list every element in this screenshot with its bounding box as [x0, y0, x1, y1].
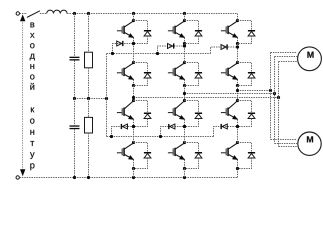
wire R2 branch lower: [88, 133, 90, 178]
freewheel diode VD3: [238, 21, 256, 44]
motor1 lead 2: [275, 56, 298, 58]
emitter node dot VT10: [132, 167, 135, 170]
junction dot clamp bottom col3: [236, 125, 239, 128]
wire switch to inductor: [40, 13, 47, 15]
emitter node dot VT11: [183, 167, 186, 170]
transistor VT5: [168, 64, 185, 80]
wire leg3 row1-row2: [237, 44, 239, 63]
junction dot top rail / phase leg 1: [132, 12, 135, 15]
phase 3 bus dot: [269, 89, 272, 92]
switch S1 blade: [27, 11, 40, 18]
clamp diode VD13: [117, 41, 124, 46]
wire clamp riser/line top col2: [158, 46, 185, 54]
junction dot clamp top col1: [132, 42, 135, 45]
collector node dot VT6: [236, 61, 239, 64]
junction dot mid rail / C: [73, 97, 76, 100]
emitter wire VT3: [237, 38, 239, 44]
motor2 lead 1: [279, 146, 298, 148]
collector node dot VT5: [183, 61, 186, 64]
bottom rail wire: [20, 177, 238, 179]
transistor VT9: [221, 102, 238, 120]
freewheel diode VD4: [134, 63, 152, 86]
label "входной" (vertical): [30, 23, 35, 90]
wire clamp riser/line bottom col2: [161, 127, 185, 137]
emitter wire VT10: [133, 160, 135, 169]
emitter wire VT8: [184, 119, 186, 126]
transistor VT10: [117, 144, 134, 160]
freewheel diode VD9: [238, 101, 256, 127]
phase 2 bus dot: [273, 92, 276, 95]
transistor VT12: [221, 144, 238, 160]
wire clamp riser/line bottom col3: [214, 127, 238, 137]
wire clamp riser/line top col3: [211, 47, 238, 54]
wire R1 branch lower: [88, 68, 90, 99]
wire leg3 row3-row4: [237, 127, 239, 143]
resistor R2: [85, 117, 93, 133]
inductor L1: [47, 10, 67, 13]
wire leg1 row4-bottom: [133, 169, 135, 178]
phase 2 tap dot: [183, 92, 186, 95]
emitter wire VT1: [133, 38, 135, 44]
emitter wire VT6: [237, 80, 239, 86]
junction dot top rail / R1: [87, 12, 90, 15]
phase 1 output wire: [134, 97, 279, 99]
motor1 lead 1: [279, 61, 298, 63]
motor bus vertical 1: [278, 62, 280, 147]
neutral mid rail: [75, 98, 107, 100]
capacitor C2: [70, 125, 80, 129]
motor2 lead 2: [275, 143, 298, 145]
freewheel diode VD2: [185, 21, 203, 44]
junction dot bus bottom col1: [110, 135, 113, 138]
wire R2 branch upper: [88, 99, 90, 118]
emitter node dot VT7: [132, 125, 135, 128]
neutral top bus: [107, 53, 211, 55]
resistor R1: [85, 52, 93, 68]
phase 1 bus dot: [277, 96, 280, 99]
collector node dot VT1: [132, 19, 135, 22]
wire top rail to VT2: [184, 14, 186, 21]
phase 3 output wire: [238, 90, 271, 92]
clamp diode VD17: [168, 124, 175, 129]
phase 2 output wire: [185, 93, 275, 95]
emitter wire VT7: [133, 119, 135, 126]
clamp diode VD16: [121, 124, 128, 129]
freewheel diode VD10: [134, 143, 152, 169]
motor2 lead 3: [271, 139, 298, 141]
emitter node dot VT3: [236, 42, 239, 45]
clamp diode VD15: [221, 44, 228, 49]
junction dot clamp bottom col1: [132, 125, 135, 128]
motor bus vertical 2: [274, 57, 276, 144]
junction dot bus top col2: [156, 52, 159, 55]
clamp diode VD18: [221, 124, 228, 129]
junction dot bottom rail / R2: [87, 176, 90, 179]
motor M1: [298, 47, 322, 71]
emitter node dot VT1: [132, 42, 135, 45]
emitter wire VT4: [133, 80, 135, 86]
emitter wire VT9: [237, 119, 239, 126]
motor M2: [298, 132, 321, 155]
collector node dot VT2: [183, 19, 186, 22]
label "контур" (vertical): [30, 107, 35, 170]
collector node dot VT8: [183, 99, 186, 102]
transistor VT11: [168, 144, 185, 160]
wire leg1 row1-row2: [133, 44, 135, 63]
arrowhead down: [20, 169, 25, 176]
wire from terminal to switch: [20, 13, 27, 15]
transistor VT1: [117, 22, 134, 38]
emitter node dot VT5: [183, 84, 186, 87]
bottom terminal: [16, 176, 19, 179]
motor bus vertical 3: [270, 53, 272, 140]
wire C1 branch lower: [74, 61, 76, 99]
emitter node dot VT4: [132, 84, 135, 87]
collector node dot VT9: [236, 99, 239, 102]
junction dot clamp top col3: [236, 45, 239, 48]
wire C2 branch upper: [74, 99, 76, 126]
junction dot bus top col1: [111, 52, 114, 55]
collector node dot VT7: [132, 99, 135, 102]
emitter wire VT12: [237, 160, 239, 169]
wire C2 branch lower: [74, 129, 76, 177]
wire clamp riser/line bottom col1: [112, 127, 134, 137]
wire leg1 row2-row3: [133, 86, 135, 101]
wire leg3 row2-row3: [237, 86, 239, 101]
freewheel diode VD12: [238, 143, 256, 169]
neutral trunk vertical: [106, 54, 108, 137]
junction dot bus bottom col2: [159, 135, 162, 138]
wire leg2 row1-row2: [184, 44, 186, 63]
transistor VT6: [221, 64, 238, 80]
freewheel diode VD8: [185, 101, 203, 127]
junction dot mid rail / trunk: [105, 97, 108, 100]
wire C1 branch upper: [74, 14, 76, 57]
wire leg1 row3-row4: [133, 127, 135, 143]
top rail wire: [67, 13, 237, 15]
wire top rail to VT3: [237, 14, 239, 21]
junction dot mid rail / R: [87, 97, 90, 100]
junction dot clamp top col2: [183, 44, 186, 47]
neutral bottom bus: [107, 136, 214, 138]
transistor VT2: [168, 22, 185, 38]
phase 1 tap dot: [132, 96, 135, 99]
freewheel diode VD1: [134, 21, 152, 44]
transistor VT7: [117, 102, 134, 120]
collector node dot VT4: [132, 61, 135, 64]
emitter node dot VT12: [236, 167, 239, 170]
transistor VT3: [221, 22, 238, 38]
emitter node dot VT8: [183, 125, 186, 128]
emitter wire VT2: [184, 38, 186, 44]
junction dot clamp bottom col2: [183, 125, 186, 128]
freewheel diode VD11: [185, 143, 203, 169]
transistor VT8: [168, 102, 185, 120]
transistor VT4: [117, 64, 134, 80]
junction dot top rail / phase leg 2: [183, 12, 186, 15]
junction dot bottom rail / leg 1: [132, 176, 135, 179]
wire clamp riser/line top col1: [113, 44, 134, 54]
collector node dot VT12: [236, 141, 239, 144]
wire leg3 row4-bottom: [237, 168, 239, 170]
wire R1 branch upper: [88, 14, 90, 53]
collector node dot VT11: [183, 141, 186, 144]
freewheel diode VD6: [238, 63, 256, 86]
capacitor C1: [70, 57, 80, 61]
freewheel diode VD7: [134, 101, 152, 127]
wire leg2 row2-row3: [184, 86, 186, 101]
wire top rail to VT1: [133, 14, 135, 21]
freewheel diode VD5: [185, 63, 203, 86]
clamp diode VD14: [168, 43, 175, 48]
collector node dot VT3: [236, 19, 239, 22]
phase 3 tap dot: [236, 89, 239, 92]
arrowhead up: [20, 14, 25, 21]
input-circuit dimension line: [22, 18, 24, 174]
bottom rail corner to leg 3: [237, 169, 239, 178]
emitter node dot VT6: [236, 84, 239, 87]
junction dot top rail / C1: [73, 12, 76, 15]
junction dot bottom rail / C2: [73, 176, 76, 179]
emitter node dot VT2: [183, 42, 186, 45]
collector node dot VT10: [132, 141, 135, 144]
emitter wire VT5: [184, 80, 186, 86]
input terminal (top): [16, 12, 19, 15]
wire leg2 row4-bottom: [184, 169, 186, 178]
motor1 lead 3: [271, 52, 298, 54]
emitter wire VT11: [184, 160, 186, 169]
emitter node dot VT9: [236, 125, 239, 128]
wire leg2 row3-row4: [184, 127, 186, 143]
junction dot bottom rail / leg 2: [183, 176, 186, 179]
